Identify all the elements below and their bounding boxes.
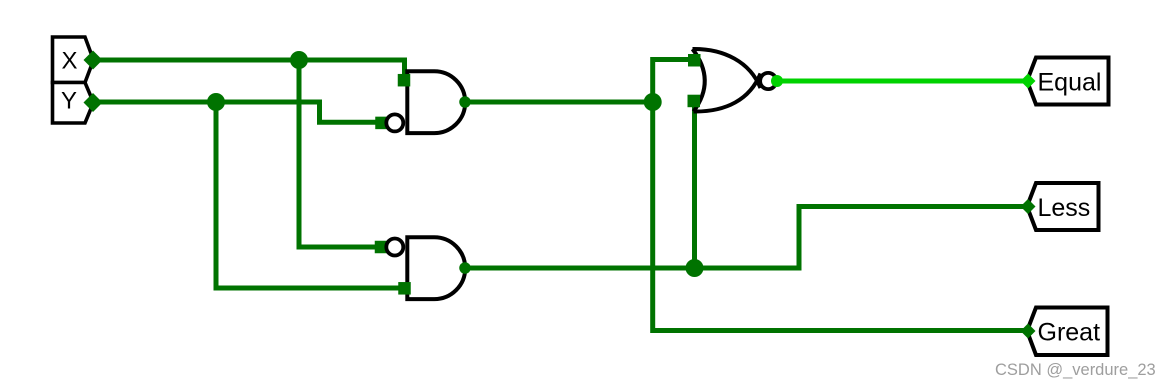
junction on Y wire bbox=[207, 93, 225, 111]
wire AND1 output to junction bbox=[464, 100, 653, 105]
wire NOR bottom input down to AND2 output junction bbox=[692, 98, 697, 268]
inverter bubble AND1 bottom input bbox=[386, 114, 403, 131]
output pin Great body bbox=[1027, 308, 1108, 356]
junction on X wire bbox=[290, 51, 308, 69]
output pin Less body bbox=[1027, 183, 1099, 230]
port square AND1 bottom input bbox=[375, 117, 388, 129]
port square AND1 top input bbox=[398, 74, 411, 87]
wire Y branch down to AND2 bottom input bbox=[216, 102, 399, 288]
wire X branch down to AND2 inverted top input bbox=[299, 60, 376, 247]
pin Y connection diamond bbox=[84, 93, 103, 112]
port square NOR bottom input bbox=[688, 95, 701, 108]
junction at AND1 output branch bbox=[644, 93, 662, 111]
pin Equal connection diamond (bright) bbox=[1021, 74, 1036, 89]
nor-gate U3 top curve bbox=[693, 49, 761, 88]
wire junction up to NOR top input and down to Great pin bbox=[653, 60, 1026, 331]
output dot NOR (bright) bbox=[771, 75, 783, 87]
port square AND2 bottom input bbox=[398, 282, 411, 295]
pin Less connection diamond bbox=[1021, 199, 1036, 214]
svg-text:Great: Great bbox=[1038, 319, 1101, 347]
junction at AND2 output branch bbox=[686, 259, 704, 277]
and-gate U1 body bbox=[407, 71, 465, 133]
input pin Y body bbox=[53, 83, 94, 124]
nor-gate U3 concave left edge bbox=[693, 49, 705, 112]
svg-text:Equal: Equal bbox=[1038, 69, 1102, 97]
and-gate U2 body bbox=[407, 237, 465, 299]
pin Great connection diamond bbox=[1021, 324, 1036, 339]
input pin X body bbox=[53, 37, 94, 83]
wire AND2 output to Less pin bbox=[464, 207, 1026, 269]
svg-text:Y: Y bbox=[61, 88, 77, 115]
nor-gate U3 fill bbox=[693, 49, 758, 112]
wire X horizontal from pin X to AND1 top input bbox=[92, 60, 405, 77]
output dot AND2 bbox=[459, 262, 471, 274]
nor-gate U3 bottom curve bbox=[694, 74, 761, 112]
svg-text:CSDN @_verdure_23: CSDN @_verdure_23 bbox=[995, 361, 1156, 379]
svg-text:X: X bbox=[61, 48, 77, 75]
inverter bubble NOR output bbox=[760, 73, 776, 89]
wire Y horizontal from pin Y stepping down to AND1 inverted input bbox=[92, 102, 376, 122]
svg-text:Less: Less bbox=[1038, 194, 1091, 222]
pin X connection diamond bbox=[84, 51, 103, 70]
inverter bubble AND2 top input bbox=[386, 239, 403, 256]
port square AND2 top input bbox=[375, 241, 388, 254]
wire Equal (logic high, bright green) bbox=[777, 79, 1026, 84]
output pin Equal body bbox=[1027, 58, 1109, 105]
output dot AND1 bbox=[459, 96, 471, 108]
port square NOR top input bbox=[688, 54, 701, 67]
